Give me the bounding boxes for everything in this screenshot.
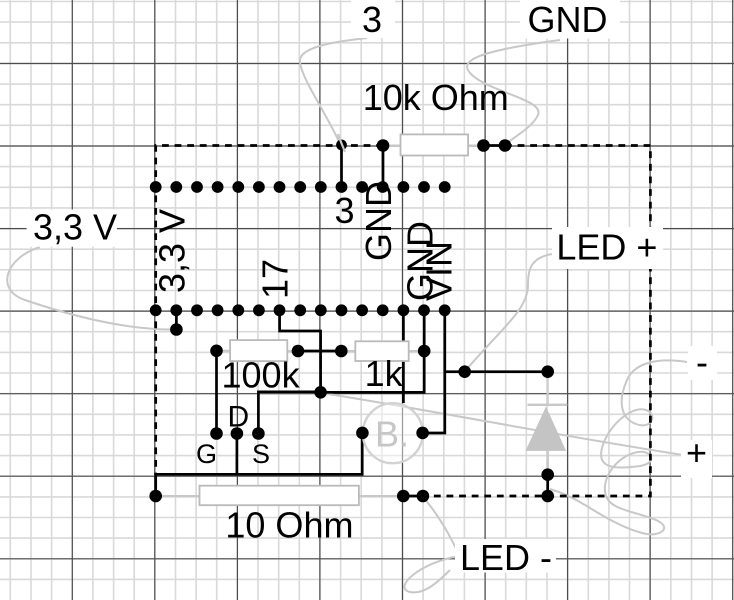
junction source S	[252, 427, 265, 440]
part B1 (ghost buzzer/motor) body	[363, 403, 423, 463]
dashed wire: GND node right, down right side, along bottom	[424, 146, 650, 497]
wire: LED cathode to bottom dashed net	[546, 475, 549, 496]
svg-text:100k: 100k	[222, 355, 301, 396]
svg-text:1k: 1k	[365, 353, 404, 394]
leader streak over node N3	[338, 134, 345, 152]
wire: branch to LED anode	[445, 370, 548, 373]
junction 1k right terminal	[418, 345, 431, 358]
wire: 10k right terminal to GND node	[484, 144, 506, 147]
leader from net label 3,3 V to pin stub node	[7, 247, 175, 330]
svg-text:LED +: LED +	[556, 227, 657, 268]
wire: GND pin down through 1k right terminal to junction	[321, 310, 425, 392]
resistor R1 10k leads	[383, 145, 484, 147]
svg-text:17: 17	[255, 259, 296, 299]
svg-text:LED -: LED -	[460, 537, 552, 578]
junction LED cathode net	[541, 490, 554, 503]
junction GND node	[499, 139, 512, 152]
wire: bottom rail from 10 Ohm left terminal to part B left pin	[156, 433, 363, 496]
junction part B right pin	[416, 427, 429, 440]
wire: 3,3 V pin stub down	[175, 310, 178, 329]
svg-text:+: +	[686, 432, 707, 473]
net label LED -	[455, 537, 556, 578]
svg-text:10k Ohm: 10k Ohm	[363, 77, 509, 118]
junction 1k left terminal	[335, 345, 348, 358]
LED D1 cathode lead	[547, 451, 549, 475]
module U1 top pin row	[150, 181, 162, 193]
dashed wire: node N3 to left edge down to 10 Ohm resistor	[156, 146, 383, 475]
junction part B left pin	[356, 427, 369, 440]
wire: 10 Ohm right terminal to dashed net	[403, 495, 424, 498]
svg-text:10 Ohm: 10 Ohm	[225, 505, 353, 546]
leader from net label LED + to anode junction	[466, 254, 552, 370]
net label 3	[351, 0, 395, 40]
svg-text:-: -	[696, 342, 708, 383]
net label -	[688, 342, 717, 383]
leader from net label GND to node NGND	[467, 40, 560, 145]
svg-text:D: D	[228, 401, 250, 434]
svg-text:3: 3	[362, 0, 382, 40]
svg-text:G: G	[196, 439, 217, 469]
junction 100k right terminal	[292, 345, 305, 358]
wire: 100k right terminal to 1k left terminal	[298, 350, 341, 353]
leader from net label LED - to resistor terminal	[423, 497, 458, 553]
resistor R1 10k body	[401, 134, 469, 155]
svg-text:GND: GND	[528, 0, 608, 40]
junction 10k right terminal	[477, 139, 490, 152]
junction 3,3 V stub	[170, 323, 183, 336]
svg-text:S: S	[252, 439, 270, 469]
junction bottom dashed net	[417, 490, 430, 503]
junction LED cathode	[541, 468, 554, 481]
wire: drain D down to bottom rail	[236, 434, 239, 475]
LED D1 cathode bar	[528, 404, 568, 406]
resistor R4 10 Ohm body	[200, 486, 359, 506]
junction drain D	[231, 427, 244, 440]
net label 3,3 V	[27, 207, 117, 248]
wire: pin 17 down to gate junction	[280, 310, 321, 392]
svg-text:3: 3	[335, 190, 355, 231]
net label +	[681, 432, 712, 478]
junction gate G	[210, 427, 223, 440]
junction 10 Ohm left terminal	[149, 490, 162, 503]
junction source-gnd node	[314, 386, 327, 399]
module U1 bottom pin row	[150, 304, 162, 316]
svg-text:B.: B.	[375, 414, 409, 455]
wire: 100k left terminal down to gate G	[215, 351, 218, 434]
leader from net label 3 to node N3	[300, 38, 367, 146]
svg-text:GND: GND	[358, 181, 399, 261]
svg-text:3,3 V: 3,3 V	[33, 207, 117, 248]
decorative curl below LED - label	[404, 556, 460, 592]
wire: GND pin up to 10k resistor left terminal	[382, 146, 385, 188]
leader squiggle from net label - to LED cathode	[550, 360, 687, 534]
junction LED anode branch	[458, 365, 471, 378]
LED D1 anode lead	[547, 372, 549, 405]
wire: pin 3 up to node N3	[340, 146, 343, 188]
svg-text:VIN: VIN	[418, 241, 459, 301]
wire: VIN pin down to part B right pin	[423, 310, 445, 433]
wire: source S up and right to junction	[258, 392, 320, 434]
resistor R3 1k leads	[341, 350, 424, 352]
resistor R3 1k body	[355, 341, 408, 361]
junction 100k left terminal	[210, 345, 223, 358]
leader from net label + to source junction	[322, 393, 683, 455]
resistor R2 100k leads	[217, 350, 299, 352]
resistor R2 100k body	[230, 340, 287, 361]
net label LED +	[552, 227, 663, 270]
junction 10k left terminal	[377, 139, 390, 152]
svg-text:3,3 V: 3,3 V	[151, 209, 192, 293]
junction at node N3	[336, 140, 347, 151]
wire: pin to part B top pin	[402, 310, 405, 403]
junction LED anode	[541, 365, 554, 378]
net label GND	[520, 0, 620, 40]
resistor R4 10 Ohm leads	[156, 495, 404, 497]
junction 10 Ohm right terminal	[397, 490, 410, 503]
LED D1 triangle	[526, 407, 567, 451]
